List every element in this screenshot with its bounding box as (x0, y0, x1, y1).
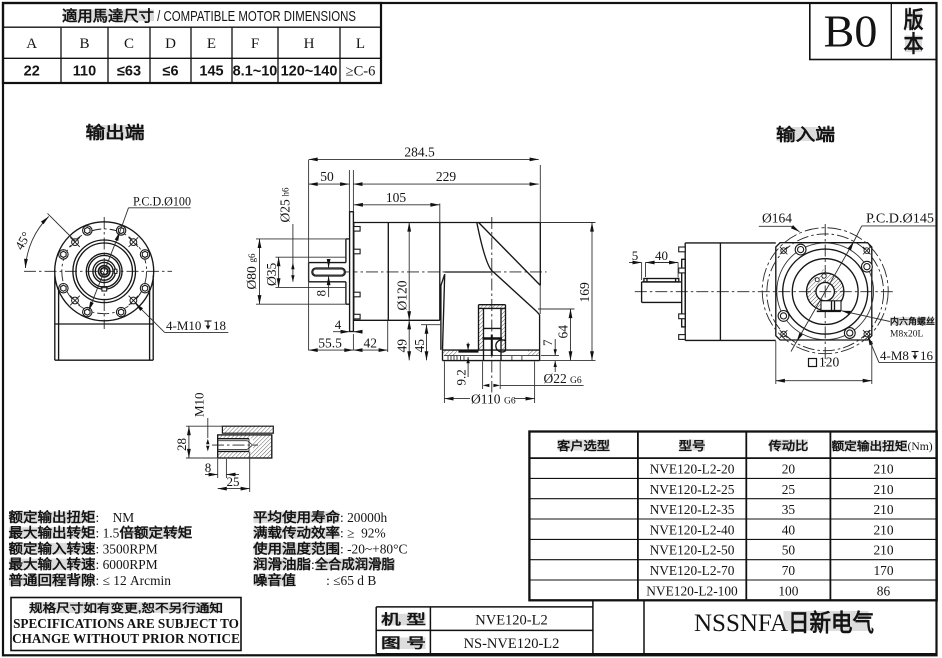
centerline output axis (491, 217, 493, 402)
dim 45 (421, 324, 441, 326)
M10 label (192, 392, 207, 417)
svg-text:版: 版 (904, 7, 924, 33)
svg-text:本: 本 (904, 31, 924, 57)
svg-text:210: 210 (873, 482, 893, 497)
svg-text:NS-NVE120-L2: NS-NVE120-L2 (464, 636, 560, 652)
svg-text:使用温度范围: -20~+80°C: 使用温度范围: -20~+80°C (252, 540, 408, 556)
dim 169 (540, 222, 595, 224)
centerline horizontal (24, 270, 172, 272)
svg-text:B0: B0 (824, 6, 878, 57)
svg-text:Ø164: Ø164 (762, 211, 792, 226)
block body (218, 435, 272, 458)
svg-text:满载传动效率: ≥ 92%: 满载传动效率: ≥ 92% (253, 525, 386, 541)
input shaft (642, 282, 682, 303)
bore keyway block (821, 301, 841, 311)
dim 229 (352, 170, 354, 212)
svg-text:210: 210 (873, 522, 893, 537)
svg-text:C: C (124, 36, 134, 52)
svg-text:5: 5 (632, 248, 639, 263)
svg-text:M8x20L: M8x20L (890, 330, 923, 340)
svg-text:h6: h6 (281, 187, 291, 197)
output boss dia80 (346, 239, 350, 304)
keyway notch (114, 269, 117, 273)
svg-text:NVE120-L2-100: NVE120-L2-100 (646, 583, 738, 598)
shaft key (644, 279, 679, 282)
svg-text:NVE120-L2-25: NVE120-L2-25 (650, 482, 735, 497)
dim 7 (541, 355, 559, 357)
svg-text:7: 7 (540, 339, 555, 346)
svg-text:机 型: 机 型 (381, 612, 426, 628)
svg-text:4-M8: 4-M8 (880, 348, 909, 363)
svg-text:28: 28 (174, 438, 189, 451)
screw circle (777, 243, 874, 340)
svg-text:40: 40 (782, 522, 796, 537)
svg-text:型号: 型号 (679, 438, 706, 453)
dim 8 (217, 459, 219, 478)
flange outer circle (55, 222, 154, 321)
svg-text:NVE120-L2-40: NVE120-L2-40 (650, 522, 735, 537)
svg-text:输入端: 输入端 (776, 125, 835, 145)
svg-text:49: 49 (394, 339, 409, 353)
dim dia35 (276, 256, 346, 258)
svg-text:SPECIFICATIONS ARE SUBJECT TO: SPECIFICATIONS ARE SUBJECT TO (13, 616, 239, 631)
4-M8 depth 16 label (868, 336, 879, 362)
corner tapped holes 4-M8 (781, 248, 870, 337)
svg-text:NVE120-L2-50: NVE120-L2-50 (650, 543, 735, 558)
dim dia120 and 49 (408, 223, 410, 239)
hatched bore section (807, 269, 844, 310)
svg-text:Ø25: Ø25 (278, 199, 293, 222)
svg-text:169: 169 (577, 282, 592, 303)
svg-text:20: 20 (782, 462, 796, 477)
tapped hole (218, 439, 249, 452)
keyway slot (312, 268, 345, 276)
centerline vertical (103, 217, 105, 329)
dim 25 (249, 452, 251, 492)
svg-text:55.5: 55.5 (318, 335, 342, 350)
svg-text:70: 70 (782, 563, 796, 578)
svg-text:润滑油脂:全合成润滑脂: 润滑油脂:全合成润滑脂 (253, 556, 395, 572)
svg-text:45: 45 (412, 339, 427, 353)
svg-text:最大输出转矩: 1.5倍额定转矩: 最大输出转矩: 1.5倍额定转矩 (9, 525, 193, 541)
bolt tabs on body face (354, 227, 360, 319)
svg-text:≤63: ≤63 (117, 64, 141, 80)
svg-text:42: 42 (364, 335, 378, 350)
svg-text:120~140: 120~140 (281, 64, 338, 80)
svg-text:120: 120 (819, 354, 840, 369)
warning notice box (11, 598, 241, 651)
svg-text:B: B (79, 36, 89, 52)
svg-text:105: 105 (386, 190, 407, 205)
boss circles (73, 240, 136, 303)
version box B0 (810, 3, 937, 60)
svg-text:16: 16 (920, 348, 934, 363)
title block (376, 600, 936, 654)
dim 50 (348, 170, 350, 212)
svg-text:g6: g6 (247, 253, 257, 263)
output end view (12, 194, 229, 361)
svg-text:8: 8 (314, 290, 329, 297)
svg-text:適用馬達尺寸 / COMPATIBLE MOTOR DIME: 適用馬達尺寸 / COMPATIBLE MOTOR DIMENSIONS (62, 7, 356, 25)
svg-text:G6: G6 (570, 376, 582, 386)
svg-text:额定输出扭矩: NM: 额定输出扭矩: NM (9, 509, 135, 525)
centerline input axis (635, 291, 893, 293)
housing outline (354, 223, 541, 321)
svg-text:22: 22 (24, 64, 40, 80)
45 degree dimension (48, 213, 76, 241)
svg-text:Ø110: Ø110 (471, 392, 501, 407)
svg-text:G6: G6 (504, 397, 516, 407)
svg-text:100: 100 (778, 583, 798, 598)
svg-text:客户选型: 客户选型 (556, 438, 610, 453)
dim 284.5 (308, 160, 310, 351)
socket head screws M8x20L (778, 244, 872, 338)
svg-text:NVE120-L2-20: NVE120-L2-20 (650, 462, 735, 477)
svg-text:最大输入转速: 6000RPM: 最大输入转速: 6000RPM (9, 556, 158, 572)
svg-text:≥C-6: ≥C-6 (346, 64, 376, 80)
svg-text:Ø35: Ø35 (264, 263, 279, 286)
svg-text:8.1~10: 8.1~10 (233, 64, 278, 80)
svg-text:4-M10: 4-M10 (166, 318, 201, 333)
dim 64 (538, 308, 575, 310)
svg-text:L: L (356, 36, 365, 52)
svg-text:P.C.D.Ø100: P.C.D.Ø100 (133, 194, 191, 209)
svg-text:H: H (304, 36, 315, 52)
PCD145 circle (767, 234, 884, 351)
puller holes (815, 278, 819, 282)
svg-text:普通回程背隙: ≤ 12 Arcmin: 普通回程背隙: ≤ 12 Arcmin (9, 572, 172, 588)
svg-text:170: 170 (873, 563, 893, 578)
svg-text:229: 229 (436, 169, 457, 184)
dim 40 (677, 263, 679, 278)
side view gearbox (244, 145, 596, 407)
svg-text:NVE120-L2-35: NVE120-L2-35 (650, 502, 735, 517)
adapter housing (685, 243, 776, 341)
dim 9.2 (467, 343, 469, 351)
svg-text:64: 64 (556, 325, 571, 339)
svg-text:145: 145 (199, 64, 223, 80)
input flange plate (682, 259, 686, 327)
dim 105 (439, 204, 441, 223)
chamfer diagonals (479, 223, 541, 286)
svg-text:18: 18 (213, 318, 226, 333)
boss circles (783, 249, 868, 334)
svg-text:P.C.D.Ø145: P.C.D.Ø145 (866, 211, 934, 226)
svg-text:规格尺寸如有变更,恕不另行通知: 规格尺寸如有变更,恕不另行通知 (29, 601, 223, 615)
square flange with chamfered corners (776, 243, 872, 340)
input end front view (759, 211, 937, 385)
svg-text:E: E (207, 36, 216, 52)
svg-text:CHANGE WITHOUT PRIOR NOTICE: CHANGE WITHOUT PRIOR NOTICE (12, 631, 240, 646)
svg-text:D: D (165, 36, 176, 52)
svg-text:210: 210 (873, 543, 893, 558)
centerline vertical (824, 224, 826, 363)
svg-text:A: A (26, 36, 37, 52)
svg-text:平均使用寿命: 20000h: 平均使用寿命: 20000h (253, 509, 388, 525)
bolt circle PCD dash-dot (62, 229, 147, 314)
dim 8 keyway (328, 260, 330, 269)
model selection table (529, 432, 936, 601)
svg-text:≤6: ≤6 (162, 64, 178, 80)
dim 28 (186, 425, 222, 427)
compatible motor dimensions table (3, 3, 381, 83)
dim dia22 G6 (482, 362, 484, 390)
svg-text:25: 25 (227, 474, 240, 489)
dim dia110 G6 (443, 362, 445, 404)
svg-text:Ø120: Ø120 (395, 280, 410, 310)
lower housing section (441, 272, 540, 361)
output tube hatched walls (479, 305, 506, 309)
svg-text:25: 25 (782, 482, 796, 497)
svg-text:Ø22: Ø22 (544, 371, 567, 386)
output shaft dia25 (309, 263, 346, 282)
svg-text:210: 210 (873, 502, 893, 517)
8 socket bolt holes (59, 226, 150, 317)
svg-text:50: 50 (782, 543, 796, 558)
spec text block (9, 509, 408, 588)
key cross section thick (483, 337, 503, 340)
svg-text:额定输入转速: 3500RPM: 额定输入转速: 3500RPM (9, 540, 158, 556)
svg-text:8: 8 (205, 460, 212, 475)
mounting body below flange (55, 276, 153, 361)
4-M10 depth 18 label (135, 303, 165, 332)
svg-text:40: 40 (655, 248, 668, 263)
dim dia25 h6 (292, 224, 294, 282)
dim 5 (641, 263, 643, 281)
svg-text:9.2: 9.2 (454, 369, 469, 385)
svg-text:35: 35 (782, 502, 796, 517)
dim 42 (352, 334, 354, 351)
dim dia80 g6 (256, 238, 346, 240)
centerline main axis (346, 271, 547, 273)
output flange (443, 350, 540, 361)
svg-text:Ø80: Ø80 (244, 266, 259, 289)
svg-text:M10: M10 (192, 392, 207, 417)
motor flange plate (350, 212, 354, 332)
svg-text:110: 110 (73, 64, 96, 80)
4 M10 tapped holes crossed (72, 239, 137, 304)
pinion nose circle (496, 340, 506, 352)
flange rim hatch left (443, 350, 458, 356)
svg-text:50: 50 (320, 169, 334, 184)
svg-text:210: 210 (873, 462, 893, 477)
svg-text:NVE120-L2: NVE120-L2 (475, 613, 548, 629)
bottom key tab (102, 287, 107, 291)
svg-text:F: F (251, 36, 259, 52)
svg-text:噪音值 : ≤65 d B: 噪音值 : ≤65 d B (253, 572, 376, 588)
motor outline dia164 phantom (762, 228, 888, 354)
svg-text:额定输出扭矩(Nm): 额定输出扭矩(Nm) (832, 439, 933, 453)
svg-text:NVE120-L2-70: NVE120-L2-70 (650, 563, 735, 578)
bolt tabs (679, 247, 686, 339)
svg-text:输出端: 输出端 (86, 123, 145, 143)
svg-text:内六角螺丝: 内六角螺丝 (890, 316, 935, 327)
svg-text:284.5: 284.5 (404, 145, 435, 160)
shaft key detail (174, 392, 273, 492)
flange vertical ribs (448, 356, 522, 361)
svg-text:NSSNFA日新电气: NSSNFA日新电气 (694, 609, 874, 637)
dim 4 (333, 331, 350, 333)
svg-text:图 号: 图 号 (381, 635, 426, 651)
shaft circles (99, 266, 110, 277)
key bar hatched (222, 426, 273, 433)
svg-text:传动比: 传动比 (767, 438, 808, 453)
svg-text:4: 4 (335, 317, 342, 332)
input side partial section (629, 243, 893, 341)
svg-text:86: 86 (877, 583, 891, 598)
dim square 120 (775, 341, 777, 384)
dim 55.5 (309, 349, 354, 351)
flange rim hatch right (528, 350, 540, 356)
